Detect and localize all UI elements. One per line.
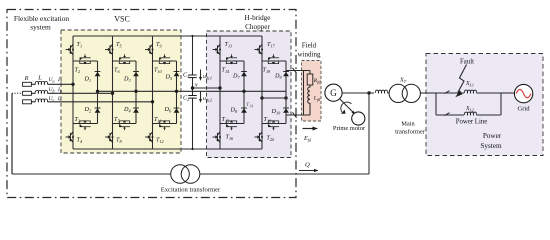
transistor T12	[145, 132, 154, 142]
power system box	[426, 54, 543, 156]
svg-text:system: system	[30, 23, 51, 32]
diode column leg3	[176, 61, 178, 124]
transistor T8	[105, 132, 114, 142]
wire chopper right column	[261, 36, 263, 149]
wire T10 row	[153, 60, 177, 62]
diode D3	[133, 72, 139, 77]
chopper right diode column	[285, 61, 287, 124]
wire lower branch	[436, 114, 464, 116]
wire T18 row	[262, 60, 286, 62]
diode D8	[241, 108, 247, 113]
wire coil to transformer	[388, 92, 390, 94]
node phase a junction	[71, 83, 74, 86]
transistor T7	[119, 120, 130, 130]
node chopper right mid	[260, 96, 263, 99]
node neutral leg1	[96, 90, 99, 93]
H-bridge chopper box	[207, 31, 292, 158]
wire to grid	[501, 92, 515, 94]
transistor T19	[268, 120, 279, 130]
wire leg1 lower column	[72, 124, 74, 150]
diode D7	[241, 72, 247, 77]
node neutral chopper left	[242, 90, 245, 93]
diode D2	[95, 108, 101, 113]
wire phase c	[31, 101, 152, 103]
inductor Lfd	[308, 85, 310, 105]
node C top	[191, 35, 193, 37]
transistor T9	[145, 44, 154, 54]
wire left branch split	[435, 93, 437, 115]
excitation transformer	[171, 165, 190, 184]
wire G to junction	[342, 92, 374, 94]
generator G	[325, 84, 342, 101]
svg-text:Power Line: Power Line	[456, 118, 488, 125]
transistor T11	[159, 120, 170, 130]
node chopper left mid	[218, 86, 221, 89]
svg-text:transformer: transformer	[395, 129, 426, 136]
transistor T10	[159, 54, 170, 64]
node Q junction	[367, 91, 370, 94]
wire neutral link to chopper	[193, 87, 221, 89]
wire C column	[192, 36, 194, 149]
svg-text:Prime motor: Prime motor	[333, 125, 366, 132]
inductor L phase b	[35, 90, 47, 93]
svg-text:VSC: VSC	[114, 15, 130, 24]
node neutral leg2	[134, 90, 137, 93]
wire field loop left side	[303, 71, 305, 116]
resistor R phase c	[23, 100, 32, 104]
svg-text:udc1: udc1	[203, 74, 212, 80]
arrow Efd	[303, 128, 314, 130]
phase b dotted tap	[12, 92, 23, 94]
wire phase b	[31, 92, 112, 94]
dc top rail	[73, 35, 262, 37]
series inductor	[375, 90, 387, 93]
svg-text:Power: Power	[483, 132, 502, 140]
wire T15 row	[220, 123, 244, 125]
transistor T18	[268, 54, 279, 64]
node phase b junction	[111, 92, 114, 95]
capacitor C2	[188, 96, 196, 99]
svg-text:udc2: udc2	[203, 96, 212, 102]
node phase c junction	[151, 100, 154, 103]
neutral rail	[98, 90, 287, 92]
wire phase a	[31, 83, 73, 85]
rotation arrow	[341, 102, 352, 112]
transistor T2	[80, 54, 91, 64]
svg-text:T14: T14	[246, 102, 253, 108]
node field tap	[284, 96, 287, 99]
svg-text:R: R	[24, 75, 29, 82]
svg-text:G: G	[330, 88, 337, 98]
main transformer	[389, 84, 407, 102]
tick upper lead	[293, 68, 297, 73]
flexible excitation system outer dash-dot box	[7, 10, 296, 198]
breaker tick lower	[444, 113, 449, 116]
VSC box	[61, 30, 181, 153]
node neutral leg3	[175, 90, 178, 93]
tick lower lead	[293, 112, 297, 117]
transistor T6	[119, 54, 130, 64]
diode D6	[174, 108, 180, 113]
transistor T20	[255, 132, 264, 142]
svg-text:Rfd: Rfd	[313, 78, 322, 84]
wire chopper left column	[219, 36, 221, 149]
wire T7 row	[113, 123, 137, 125]
svg-text:L: L	[37, 75, 42, 82]
field winding box	[302, 61, 322, 122]
diode D5	[174, 72, 180, 77]
wire bottom line left	[12, 173, 171, 175]
capacitor C1	[188, 75, 196, 78]
diode D10	[283, 108, 289, 113]
left bus wire	[11, 93, 13, 174]
svg-text:Field: Field	[302, 42, 317, 50]
inductor L phase c	[35, 99, 47, 102]
node dc mid	[191, 86, 194, 89]
inductor L phase a	[35, 81, 47, 84]
svg-text:Lfd: Lfd	[313, 96, 321, 102]
svg-text:XL2: XL2	[465, 106, 474, 112]
svg-text:Chopper: Chopper	[245, 23, 270, 31]
wire leg2 column	[112, 36, 114, 149]
wire T6 row	[113, 60, 137, 62]
grid sine	[516, 89, 531, 97]
wire T14 row	[220, 60, 244, 62]
wire field upper lead	[286, 71, 310, 75]
resistor Rfd	[307, 74, 313, 85]
diode D4	[133, 108, 139, 113]
arrow u_dc1	[200, 70, 202, 79]
wire T2 row	[73, 60, 98, 62]
inductor XL1	[464, 90, 476, 93]
transistor T1	[66, 44, 75, 54]
grid circle	[514, 84, 532, 102]
svg-text:Excitation transformer: Excitation transformer	[161, 187, 221, 194]
transistor T5	[105, 44, 114, 54]
diode D1	[95, 72, 101, 77]
breaker tick upper	[444, 91, 449, 94]
transistor T13	[213, 44, 222, 54]
chopper left diode column	[243, 61, 245, 124]
resistor R phase a	[23, 82, 32, 86]
svg-text:winding: winding	[298, 51, 321, 59]
transistor T3	[80, 120, 91, 130]
wire upper branch right	[477, 92, 502, 94]
wire leg3 column	[152, 36, 154, 149]
wire bottom line right	[200, 93, 369, 174]
diode column leg1	[97, 61, 99, 124]
shaft wire	[340, 99, 353, 112]
svg-text:System: System	[480, 142, 502, 150]
diode column leg2	[135, 61, 137, 124]
wire leg1 column	[72, 36, 74, 124]
wire upper branch	[436, 92, 464, 94]
wire lower branch right	[477, 93, 502, 115]
dc bottom rail	[73, 148, 262, 150]
svg-text:Fault: Fault	[460, 59, 474, 66]
prime motor circle	[352, 112, 365, 125]
wire transformer to power box	[420, 92, 436, 94]
transistor T14	[226, 54, 237, 64]
svg-text:Main: Main	[401, 121, 415, 128]
transistor T17	[255, 44, 264, 54]
wire T11 row	[153, 123, 177, 125]
diode D9	[283, 72, 289, 77]
wire field tap row	[262, 97, 286, 99]
node C bottom	[191, 148, 193, 150]
svg-text:XL1: XL1	[465, 81, 474, 87]
svg-text:Grid: Grid	[517, 106, 530, 113]
svg-text:H-bridge: H-bridge	[245, 14, 271, 22]
wire T3 row	[73, 123, 98, 125]
transistor T15	[226, 120, 237, 130]
svg-text:Q: Q	[305, 162, 310, 169]
resistor R phase b	[23, 91, 32, 95]
transistor T16	[213, 132, 222, 142]
transistor T4	[66, 132, 75, 142]
wire field lower lead	[286, 105, 310, 115]
inductor XL2	[464, 112, 476, 115]
wire T19 row	[262, 123, 286, 125]
arrow u_dc2	[200, 92, 202, 101]
